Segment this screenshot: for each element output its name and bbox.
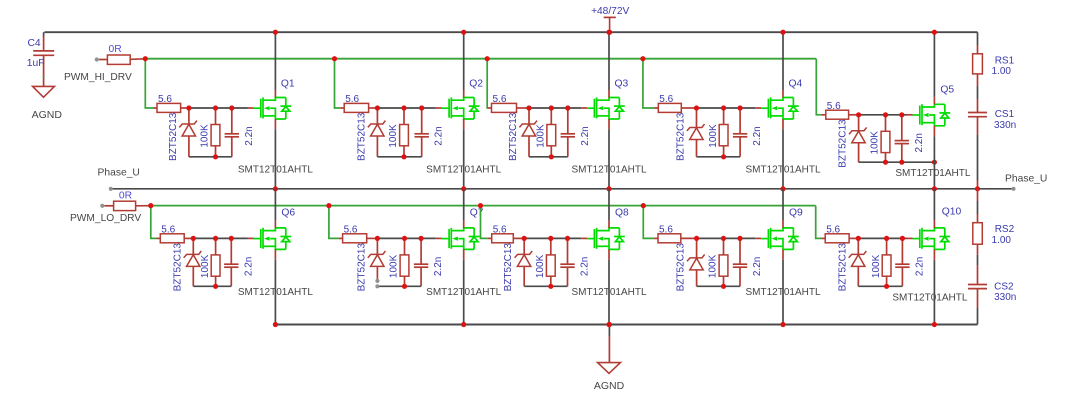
zener diode BZT52C13 (Q1 gate clamp) [179, 108, 197, 157]
wire: source column Q7 to AGND bus [463, 260, 465, 325]
svg-text:SMT12T01AHTL: SMT12T01AHTL [571, 287, 646, 298]
junction: AGND bus at Q6 source [273, 322, 278, 327]
svg-text:1.00: 1.00 [992, 66, 1012, 77]
pin lead source Q7 [463, 249, 465, 259]
MOSFET Q9 SMT12T01AHTL [761, 228, 799, 250]
wire: pin lead to Q7 gate [436, 237, 442, 239]
resistor 100K (Q9 gate bleed) [719, 238, 728, 286]
wire: Q6 gate node [193, 237, 247, 239]
junction: 100K top Q10 [884, 236, 889, 241]
wire: gate drive drop to Q4 network [643, 59, 655, 108]
junction: 2.2n top Q10 [900, 236, 905, 241]
svg-text:BZT52C13: BZT52C13 [356, 243, 367, 292]
junction: 100K bottom Q7 [402, 284, 407, 289]
pin lead source Q4 [782, 119, 784, 129]
wire: drain column Q6 from Phase_U [274, 189, 276, 221]
wire: Q4 gate node [697, 107, 756, 109]
resistor 5.6 (Q10 gate resistor) [825, 234, 858, 243]
junction: 100K top Q2 [401, 105, 406, 110]
svg-text:SMT12T01AHTL: SMT12T01AHTL [895, 168, 970, 179]
junction: 100K top Q4 [721, 105, 726, 110]
svg-text:BZT52C13: BZT52C13 [676, 112, 687, 161]
svg-text:100K: 100K [389, 254, 400, 278]
wire: pin lead into gate resistor Q5 [822, 114, 826, 116]
MOSFET Q3 SMT12T01AHTL [587, 97, 625, 119]
wire: AGND bottom bus [275, 324, 977, 326]
junction: AGND bus at Q10 source [932, 322, 937, 327]
junction: drive rail drop Q9 [641, 203, 646, 208]
resistor 5.6 (Q1 gate resistor) [157, 103, 189, 112]
capacitor 2.2n (Q2 gate filter) [415, 108, 429, 157]
pin lead drain Q9 [782, 220, 784, 228]
wire: pin lead into gate resistor Q6 [156, 237, 160, 239]
MOSFET Q2 SMT12T01AHTL [442, 97, 480, 119]
svg-text:5.6: 5.6 [161, 225, 175, 236]
wire: pin lead to Q3 gate [581, 107, 587, 109]
wire: gate drive drop to Q8 network [481, 206, 488, 239]
svg-text:5.6: 5.6 [826, 225, 840, 236]
junction: Phase_U at snubber leg [975, 186, 980, 191]
junction: 100K top Q9 [721, 236, 726, 241]
svg-text:BZT52C13: BZT52C13 [508, 112, 519, 161]
svg-text:SMT12T01AHTL: SMT12T01AHTL [426, 165, 501, 176]
wire: Q9 clamp network bottom [697, 285, 740, 287]
pin lead source Q6 [274, 249, 276, 259]
wire: gate drive drop to Q5 network [816, 59, 822, 115]
wire: Q9 gate node [697, 237, 756, 239]
svg-text:330n: 330n [994, 292, 1016, 303]
junction: drive rail drop Q4 [640, 56, 645, 61]
junction: Phase_U at Q1 source [273, 186, 278, 191]
pin lead source Q10 [933, 249, 935, 259]
MOSFET Q7 SMT12T01AHTL [442, 228, 480, 250]
svg-text:100K: 100K [536, 124, 547, 148]
wire: drain column Q4 from +48/72V bus [782, 32, 784, 90]
junction: drive rail drop Q7 [326, 203, 331, 208]
junction: zener top Q10 [856, 236, 861, 241]
svg-text:Q1: Q1 [281, 79, 295, 90]
junction: top bus at Q5 drain [932, 30, 937, 35]
svg-text:AGND: AGND [594, 380, 625, 392]
resistor RS2 1.00 [973, 223, 983, 255]
net stub tick on C4 wire [43, 76, 45, 78]
junction: supply stub on top bus [607, 30, 612, 35]
svg-text:5.6: 5.6 [493, 225, 507, 236]
zener diode BZT52C13 (Q5 gate clamp) [849, 115, 867, 162]
wire: gate drive drop to Q9 network [643, 206, 654, 239]
capacitor 2.2n (Q9 gate filter) [733, 238, 747, 286]
pin lead drain Q3 [608, 90, 610, 98]
wire: drain column Q9 from Phase_U [782, 189, 784, 221]
ground symbol AGND (bottom) [598, 325, 621, 374]
svg-text:Phase_U: Phase_U [1005, 174, 1047, 185]
svg-text:100K: 100K [200, 254, 211, 278]
ground symbol AGND (C4) [33, 86, 55, 97]
capacitor 2.2n (Q1 gate filter) [225, 108, 239, 157]
svg-text:1.00: 1.00 [992, 235, 1012, 246]
junction: 100K top Q6 [213, 236, 218, 241]
svg-text:AGND: AGND [32, 109, 63, 121]
svg-text:5.6: 5.6 [659, 94, 673, 105]
pin lead source Q1 [274, 119, 276, 129]
svg-text:BZT52C13: BZT52C13 [168, 112, 179, 161]
svg-text:100K: 100K [870, 131, 881, 155]
junction: 100K bottom Q8 [548, 284, 553, 289]
wire: Q2 gate node [377, 107, 435, 109]
wire: RS2 to CS2 [977, 255, 979, 284]
wire: RS1 to CS1 [977, 86, 979, 112]
junction: Phase_U at Q5 source [932, 186, 937, 191]
pin lead source Q9 [782, 249, 784, 259]
junction: top bus at Q3 drain [606, 30, 611, 35]
resistor 5.6 (Q9 gate resistor) [658, 234, 697, 243]
junction: Phase_U at Q3 source [606, 186, 611, 191]
svg-text:330n: 330n [994, 120, 1016, 131]
junction: 100K bottom Q6 [213, 284, 218, 289]
wire: Q8 gate node [524, 237, 581, 239]
junction: zener top Q4 [694, 105, 699, 110]
wire: pin lead to Q6 gate [248, 237, 254, 239]
svg-text:5.6: 5.6 [345, 94, 359, 105]
wire: Q7 gate node [377, 237, 435, 239]
junction: 2.2n top Q9 [737, 236, 742, 241]
resistor 5.6 (Q5 gate resistor) [826, 110, 859, 119]
junction: top bus at Q2 drain [461, 30, 466, 35]
pin lead drain Q8 [608, 220, 610, 228]
wire: Q10 clamp network bottom [858, 285, 902, 287]
wire: low side gate drive rail [151, 205, 816, 207]
junction: zener top Q6 [191, 236, 196, 241]
svg-text:SMT12T01AHTL: SMT12T01AHTL [238, 287, 313, 298]
svg-text:SMT12T01AHTL: SMT12T01AHTL [745, 165, 820, 176]
wire: pin lead to Q2 gate [436, 107, 442, 109]
zener diode BZT52C13 (Q9 gate clamp) [687, 238, 705, 286]
resistor 5.6 (Q4 gate resistor) [658, 103, 696, 112]
junction: zener top Q2 [375, 105, 380, 110]
junction: 2.2n top Q6 [229, 236, 234, 241]
wire: Q2 clamp network bottom [377, 156, 421, 158]
wire: pin lead into gate resistor Q10 [821, 237, 825, 239]
pin lead drain Q4 [782, 90, 784, 98]
svg-text:100K: 100K [708, 124, 719, 148]
capacitor 2.2n (Q6 gate filter) [224, 238, 238, 286]
junction: drive rail drop Q6 [148, 203, 153, 208]
svg-text:2.2n: 2.2n [434, 126, 445, 145]
junction: 100K top Q7 [402, 236, 407, 241]
svg-text:2.2n: 2.2n [433, 257, 444, 276]
svg-text:100K: 100K [388, 124, 399, 148]
svg-text:Q8: Q8 [615, 207, 629, 218]
resistor RS1 1.00 [973, 54, 983, 86]
wire: drain column Q7 from Phase_U [463, 189, 465, 221]
svg-text:2.2n: 2.2n [914, 257, 925, 276]
junction: zener top Q5 [856, 112, 861, 117]
junction: 100K top Q1 [213, 105, 218, 110]
svg-text:RS2: RS2 [995, 224, 1015, 235]
junction: 100K bottom Q1 [213, 154, 218, 159]
wire: pin lead into gate resistor Q8 [488, 237, 492, 239]
junction: 2.2n top Q5 [899, 112, 904, 117]
svg-text:2.2n: 2.2n [243, 257, 254, 276]
wire: source column Q3 to Phase_U [608, 129, 610, 189]
zener diode BZT52C13 (Q4 gate clamp) [687, 108, 705, 157]
pin: Phase_U left stub [109, 187, 113, 191]
junction: 100K top Q8 [548, 236, 553, 241]
resistor 100K (Q5 gate bleed) [881, 115, 890, 162]
svg-text:2.2n: 2.2n [914, 133, 925, 152]
svg-text:5.6: 5.6 [827, 101, 841, 112]
wire: source column Q10 to AGND bus [933, 260, 935, 325]
wire: Q4 clamp network bottom [697, 156, 741, 158]
wire: gate drive drop to Q2 network [335, 59, 341, 108]
svg-text:SMT12T01AHTL: SMT12T01AHTL [238, 165, 313, 176]
svg-text:BZT52C13: BZT52C13 [838, 119, 849, 168]
svg-text:5.6: 5.6 [659, 225, 673, 236]
wire: source column Q5 to Phase_U [933, 136, 935, 189]
wire: pin lead to Q9 gate [755, 237, 761, 239]
capacitor CS1 330n [968, 113, 987, 136]
junction: drive rail drop Q8 [478, 203, 483, 208]
resistor 100K (Q4 gate bleed) [719, 108, 728, 157]
svg-text:BZT52C13: BZT52C13 [172, 243, 183, 292]
svg-text:0R: 0R [109, 44, 122, 55]
wire: top bus right end down to RS1 [977, 32, 979, 54]
wire: pin lead into gate resistor Q3 [488, 107, 492, 109]
supply symbol +48/72V [604, 17, 616, 32]
svg-text:SMT12T01AHTL: SMT12T01AHTL [571, 165, 646, 176]
svg-text:Q2: Q2 [469, 79, 483, 90]
wire: source column Q4 to Phase_U [782, 129, 784, 189]
svg-text:100K: 100K [535, 254, 546, 278]
pin: PWM_HI_DRV input stub [95, 57, 99, 61]
wire: Q3 gate node [529, 107, 581, 109]
junction: 100K bottom Q10 [884, 284, 889, 289]
junction: zener top Q8 [522, 236, 527, 241]
svg-text:1uF: 1uF [27, 58, 45, 69]
MOSFET Q8 SMT12T01AHTL [587, 228, 625, 250]
wire: drain column Q2 from +48/72V bus [463, 32, 465, 90]
junction: Phase_U at Q2 source [461, 186, 466, 191]
MOSFET Q4 SMT12T01AHTL [761, 97, 799, 119]
resistor 100K (Q6 gate bleed) [211, 238, 220, 286]
zener diode BZT52C13 (Q2 gate clamp) [368, 108, 386, 157]
junction: top bus at Q1 drain [273, 30, 278, 35]
wire: pin lead into gate resistor Q9 [654, 237, 658, 239]
capacitor 2.2n (Q3 gate filter) [561, 108, 575, 157]
resistor 5.6 (Q3 gate resistor) [492, 103, 530, 112]
wire: source column Q9 to AGND bus [782, 260, 784, 325]
wire: pin lead to Q1 gate [248, 107, 254, 109]
resistor 100K (Q1 gate bleed) [211, 108, 220, 157]
svg-text:2.2n: 2.2n [752, 126, 763, 145]
zener diode BZT52C13 (Q8 gate clamp) [515, 238, 533, 286]
wire: gate drive drop to Q6 network [151, 206, 157, 239]
wire: Q1 clamp network bottom [189, 156, 232, 158]
pin lead drain Q1 [274, 90, 276, 98]
wire: Q5 clamp network bottom to source column [859, 161, 935, 163]
svg-text:Q3: Q3 [615, 79, 629, 90]
wire: Q6 clamp network bottom [193, 285, 231, 287]
svg-text:5.6: 5.6 [493, 94, 507, 105]
junction: 2.2n top Q8 [565, 236, 570, 241]
svg-text:Phase_U: Phase_U [98, 167, 140, 178]
svg-text:Q4: Q4 [789, 79, 803, 90]
pin lead drain Q10 [933, 220, 935, 228]
junction: 100K bottom Q5 [883, 160, 888, 165]
junction: drive rail drop Q1 [143, 56, 148, 61]
pin lead source Q2 [463, 119, 465, 129]
pin: Phase_U right stub [1011, 187, 1015, 191]
capacitor 2.2n (Q5 gate filter) [895, 115, 909, 162]
junction: 2.2n bottom Q5 [899, 160, 904, 165]
capacitor 2.2n (Q8 gate filter) [560, 238, 574, 286]
wire: pin lead into gate resistor Q4 [654, 107, 658, 109]
wire: Q7 clamp network bottom (open left end) [377, 285, 421, 287]
wire: drain column Q5 from +48/72V bus [933, 32, 935, 97]
zener diode BZT52C13 (Q6 gate clamp) [184, 238, 202, 286]
zener diode BZT52C13 (Q7 gate clamp) [368, 238, 386, 280]
wire: Q8 clamp network bottom [524, 285, 567, 287]
junction: 100K bottom Q9 [721, 284, 726, 289]
pin lead source Q5 [933, 126, 935, 136]
wire: source column Q8 to AGND bus [608, 260, 610, 325]
svg-text:0R: 0R [119, 191, 132, 202]
wire: top bus left end down to C4 [43, 32, 45, 36]
junction: zener top Q1 [186, 105, 191, 110]
svg-text:BZT52C13: BZT52C13 [676, 243, 687, 292]
junction: zener top Q7 [375, 236, 380, 241]
svg-text:100K: 100K [871, 254, 882, 278]
wire: drain column Q10 from Phase_U [933, 189, 935, 221]
resistor 5.6 (Q2 gate resistor) [344, 103, 377, 112]
capacitor 2.2n (Q4 gate filter) [733, 108, 747, 157]
junction: 100K top Q3 [549, 105, 554, 110]
junction: 100K bottom Q4 [721, 154, 726, 159]
wire: pin lead into gate resistor Q7 [339, 237, 343, 239]
wire: source column Q2 to Phase_U [463, 129, 465, 189]
pin lead drain Q5 [933, 97, 935, 105]
svg-text:100K: 100K [708, 254, 719, 278]
junction: 100K bottom Q2 [401, 154, 406, 159]
junction: 100K top Q5 [883, 112, 888, 117]
junction: AGND bus at Q8 source [606, 322, 611, 327]
junction: AGND bus at Q7 source [461, 322, 466, 327]
svg-text:CS1: CS1 [995, 109, 1015, 120]
svg-text:RS1: RS1 [995, 55, 1015, 66]
pin lead drain Q2 [463, 90, 465, 98]
junction: drive rail drop Q2 [332, 56, 337, 61]
svg-text:5.6: 5.6 [344, 225, 358, 236]
junction: 2.2n top Q3 [565, 105, 570, 110]
wire: pin lead to Q10 gate [907, 237, 913, 239]
svg-text:BZT52C13: BZT52C13 [837, 243, 848, 292]
MOSFET Q10 SMT12T01AHTL [913, 228, 951, 250]
wire: CS1 down to Phase_U [977, 135, 979, 189]
resistor 0R (low side gate drive) [104, 201, 150, 210]
zener diode BZT52C13 (Q3 gate clamp) [519, 108, 537, 157]
svg-text:Q10: Q10 [942, 207, 962, 218]
wire: Phase_U rail [111, 188, 1014, 190]
resistor 100K (Q3 gate bleed) [547, 108, 556, 157]
junction: 100K bottom Q3 [549, 154, 554, 159]
resistor 5.6 (Q7 gate resistor) [343, 234, 378, 243]
wire: pin lead into gate resistor Q1 [153, 107, 157, 109]
wire: CS2 down to AGND bus [977, 308, 979, 325]
wire: pin lead to Q4 gate [755, 107, 761, 109]
pin lead drain Q7 [463, 220, 465, 228]
capacitor 2.2n (Q7 gate filter) [414, 238, 428, 286]
pin lead drain Q6 [274, 220, 276, 228]
junction: 2.2n top Q1 [229, 105, 234, 110]
junction: AGND bus at Q9 source [780, 322, 785, 327]
junction: drive rail drop Q3 [485, 56, 490, 61]
pin: PWM_LO_DRV input stub [100, 204, 104, 208]
wire: high side gate drive rail [145, 58, 816, 60]
resistor 0R (high side gate drive) [99, 55, 145, 64]
svg-text:SMT12T01AHTL: SMT12T01AHTL [892, 293, 967, 304]
svg-text:SMT12T01AHTL: SMT12T01AHTL [745, 287, 820, 298]
wire: drain column Q3 from +48/72V bus [608, 32, 610, 90]
wire: source column Q6 to AGND bus [274, 260, 276, 325]
MOSFET Q6 SMT12T01AHTL [254, 228, 292, 250]
resistor 100K (Q8 gate bleed) [546, 238, 555, 286]
svg-text:PWM_HI_DRV: PWM_HI_DRV [64, 72, 132, 83]
svg-text:5.6: 5.6 [158, 94, 172, 105]
svg-text:2.2n: 2.2n [580, 257, 591, 276]
wire: drain column Q1 from +48/72V bus [274, 32, 276, 90]
wire: pin lead into gate resistor Q2 [340, 107, 344, 109]
svg-text:Q6: Q6 [281, 207, 295, 218]
zener diode BZT52C13 (Q10 gate clamp) [849, 238, 867, 286]
pin: open wire end Q7 bottom wire [375, 284, 379, 288]
junction: 2.2n top Q2 [419, 105, 424, 110]
wire: Q5 gate node [859, 114, 907, 116]
wire: +48/72V top bus [44, 31, 977, 33]
junction: zener top Q3 [526, 105, 531, 110]
wire: Phase_U down to RS2 [977, 189, 979, 223]
svg-text:C4: C4 [28, 38, 41, 49]
svg-text:SMT12T01AHTL: SMT12T01AHTL [426, 287, 501, 298]
resistor 100K (Q7 gate bleed) [400, 238, 409, 286]
capacitor C4 1uF [33, 36, 54, 86]
wire: drain column Q8 from Phase_U [608, 189, 610, 221]
wire: gate drive drop to Q10 network [816, 206, 822, 239]
svg-text:BZT52C13: BZT52C13 [503, 243, 514, 292]
resistor 100K (Q2 gate bleed) [400, 108, 409, 157]
resistor 100K (Q10 gate bleed) [882, 238, 891, 286]
capacitor 2.2n (Q10 gate filter) [895, 238, 909, 286]
svg-text:2.2n: 2.2n [752, 257, 763, 276]
svg-text:100K: 100K [200, 124, 211, 148]
junction: top bus at Q4 drain [780, 30, 785, 35]
MOSFET Q5 SMT12T01AHTL [913, 104, 951, 126]
MOSFET Q1 SMT12T01AHTL [254, 97, 292, 119]
capacitor CS2 330n [968, 285, 987, 309]
wire: pin lead to Q8 gate [581, 237, 587, 239]
svg-text:CS2: CS2 [994, 282, 1014, 293]
svg-text:Q9: Q9 [789, 207, 803, 218]
junction: bottom wire meets source column Q5 [932, 160, 937, 165]
junction: AGND stem on bottom bus [607, 322, 612, 327]
svg-text:Q5: Q5 [940, 85, 954, 96]
wire: Q10 gate node [858, 237, 906, 239]
resistor 5.6 (Q8 gate resistor) [492, 234, 525, 243]
pin: open zener anode Q7 [375, 279, 379, 283]
wire: gate drive drop to Q3 network [486, 59, 489, 108]
wire: gate drive drop to Q7 network [329, 206, 339, 239]
svg-text:BZT52C13: BZT52C13 [356, 112, 367, 161]
junction: 2.2n top Q7 [419, 236, 424, 241]
